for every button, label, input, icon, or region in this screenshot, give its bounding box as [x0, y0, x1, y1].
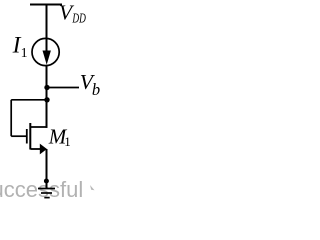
transistor M1 drain lead [31, 126, 48, 128]
wire: node to Vb label [47, 87, 79, 89]
svg-text:DD: DD [72, 11, 86, 26]
svg-text:b: b [92, 80, 100, 99]
junction dot: gate feedback tap [44, 97, 49, 102]
wire: gate lead [11, 135, 27, 137]
ground symbol [38, 188, 55, 190]
watermark cursor tick [90, 185, 95, 190]
junction dot above ground [44, 179, 49, 184]
wire: feedback left leg down [10, 100, 12, 136]
current source I1 [32, 38, 59, 65]
transistor M1 source lead with arrow [31, 148, 42, 150]
wire: feedback to gate (left) [11, 99, 47, 101]
transistor M1 channel bar [29, 123, 31, 150]
node Vb junction dot [44, 85, 49, 90]
wire: source of M1 down to ground [46, 149, 48, 189]
svg-text:uccessful: uccessful [0, 177, 83, 202]
wire: current source down to drain of M1 [46, 66, 48, 128]
svg-text:1: 1 [64, 134, 71, 149]
wire: VDD rail down to current source [46, 5, 48, 40]
node VDD: top supply rail [30, 4, 62, 6]
transistor M1 gate bar [26, 129, 28, 144]
svg-text:1: 1 [21, 46, 28, 61]
